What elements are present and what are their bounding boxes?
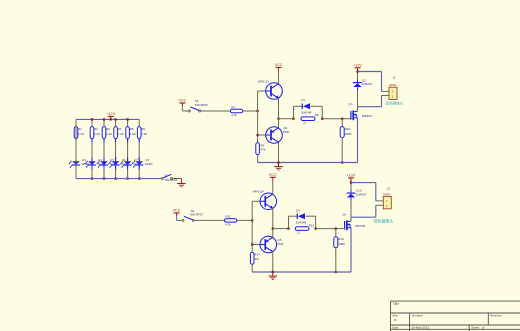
wire R13 to ground rail — [335, 248, 337, 272]
title block frame — [391, 300, 520, 302]
svg-text:1.2K: 1.2K — [130, 132, 136, 136]
resistor R9 47k — [256, 143, 260, 155]
wire gate node to R10 — [341, 119, 343, 127]
wire VCC to Q1 collector — [278, 71, 280, 84]
svg-text:100K: 100K — [338, 242, 345, 246]
wire D2 to +12V node — [357, 72, 359, 80]
junction base node (bottom) — [251, 219, 253, 221]
svg-text:R2: R2 — [94, 127, 98, 131]
svg-text:1N4148: 1N4148 — [296, 221, 307, 225]
junction +12V on bus — [110, 118, 112, 120]
svg-text:+12V: +12V — [353, 63, 362, 67]
svg-text:R5: R5 — [130, 127, 134, 131]
power VCC (S1) — [179, 102, 185, 104]
svg-text:D1: D1 — [301, 98, 305, 102]
junction output node (bottom) — [272, 227, 274, 229]
junction D9 left — [287, 227, 289, 229]
svg-text:SW-SPST: SW-SPST — [190, 212, 203, 216]
wire R5 to D7 — [127, 139, 129, 162]
svg-text:S3: S3 — [164, 174, 168, 178]
wire base bus Q4-Q5 — [251, 201, 253, 252]
transistor Q4 NPN — [252, 200, 260, 202]
svg-text:Q3: Q3 — [348, 102, 352, 106]
LED D3 WLED — [72, 161, 80, 165]
svg-text:1N4007: 1N4007 — [362, 82, 373, 86]
wire D10 to +12V node — [350, 183, 352, 190]
junction bottom bus col 6 — [138, 177, 140, 179]
svg-text:Title: Title — [393, 302, 399, 306]
junction Q6 drain J2 — [350, 217, 352, 221]
svg-text:1.2K: 1.2K — [94, 132, 100, 136]
svg-text:J2: J2 — [387, 186, 390, 190]
junction D1 left — [292, 118, 294, 120]
svg-text:R13: R13 — [338, 237, 344, 241]
svg-text:PNP: PNP — [277, 242, 283, 246]
svg-text:VCC: VCC — [275, 63, 283, 67]
power VCC (Q4) — [270, 176, 276, 178]
LED D4 WLED — [88, 161, 96, 165]
svg-text:22: 22 — [297, 231, 301, 235]
diode D1 1N4148 — [301, 104, 303, 110]
junction D1 right — [321, 118, 323, 120]
switch S2 SW-SPST — [182, 219, 184, 221]
resistor R3 1.2K — [102, 127, 106, 139]
svg-text:VCC: VCC — [173, 209, 181, 213]
power +12V (top) — [357, 68, 359, 72]
wire R6 top — [138, 119, 140, 126]
wire LED bank bottom bus — [75, 119, 77, 178]
wire R4 to D6 — [115, 139, 117, 162]
svg-text:47k: 47k — [254, 257, 259, 261]
wire R14 to ground rail — [251, 264, 253, 272]
svg-text:IRF540: IRF540 — [362, 114, 372, 118]
svg-text:PNP: PNP — [283, 130, 289, 134]
junction gate node (top) — [341, 118, 343, 120]
wire Q3 source to ground rail — [357, 118, 359, 163]
resistor R10 100K — [340, 127, 344, 138]
svg-text:22: 22 — [303, 121, 307, 125]
wire output node to Q2 emitter — [278, 119, 280, 128]
diode D2 1N4007 — [353, 82, 362, 84]
svg-text:R1: R1 — [78, 127, 82, 131]
wire D6 cathode — [115, 165, 117, 179]
wire Q2 collector to ground rail — [278, 142, 280, 162]
wire base bus Q1-Q2 — [257, 91, 259, 143]
wire output node to D9/R12 — [273, 228, 289, 230]
wire R7 to base node — [243, 110, 258, 112]
power VCC (S2) — [174, 212, 180, 214]
resistor R7 4.7k — [230, 109, 242, 112]
LED D5 WLED — [100, 161, 108, 165]
resistor R11 4.7k — [224, 219, 236, 222]
resistor R6 1.2K — [137, 127, 141, 139]
wire S1 to R7 — [201, 110, 231, 112]
svg-text:1N4007: 1N4007 — [356, 193, 367, 197]
junction Q2 base — [256, 134, 258, 136]
svg-text:VCC: VCC — [179, 99, 187, 103]
switch S1 SW-SPST — [188, 110, 190, 112]
wire D9 loop — [288, 216, 290, 228]
power VCC (Q1) — [276, 66, 282, 68]
wire VCC to Q4 collector — [272, 181, 274, 194]
resistor R1 1.2K — [74, 127, 78, 139]
svg-text:蓝色摄像头: 蓝色摄像头 — [386, 100, 404, 105]
diode D10 1N4007 — [347, 192, 356, 194]
svg-text:1.2K: 1.2K — [78, 132, 84, 136]
wire R6 to D8 — [138, 139, 140, 162]
svg-text:Number: Number — [412, 314, 423, 318]
svg-text:WLED: WLED — [145, 162, 153, 166]
wire R2 top — [91, 119, 93, 126]
switch S3 SW-SPST — [161, 178, 163, 180]
svg-text:+12V: +12V — [106, 112, 115, 116]
svg-text:R10: R10 — [345, 127, 351, 131]
wire gate node to R13 — [335, 229, 337, 237]
transistor Q1 NPN — [258, 90, 266, 92]
svg-text:HDR2: HDR2 — [389, 83, 397, 87]
power +12V (bottom) — [350, 178, 352, 183]
ground (bottom driver) — [272, 272, 274, 276]
junction output node (top) — [277, 118, 279, 120]
svg-text:1.2K: 1.2K — [118, 132, 124, 136]
wire D8 cathode — [138, 165, 140, 179]
wire R1 to D3 — [75, 139, 77, 162]
svg-text:J1: J1 — [393, 76, 396, 80]
wire Q4 emitter to output node — [272, 209, 274, 229]
LED D6 WLED — [112, 161, 120, 165]
diode D9 1N4148 — [296, 213, 298, 219]
wire D4 cathode — [91, 165, 93, 179]
junction gate node (bottom) — [335, 227, 337, 229]
wire VCC to S2 — [176, 216, 178, 220]
wire Q1 emitter to output node — [278, 98, 280, 118]
junction top bus col 3 — [103, 118, 105, 120]
svg-text:R7: R7 — [231, 105, 235, 109]
wire gate node to Q3 — [342, 118, 351, 120]
wire R2 to D4 — [91, 139, 93, 162]
svg-text:1N4148: 1N4148 — [301, 111, 312, 115]
svg-text:Revision: Revision — [490, 314, 502, 318]
svg-text:4.7k: 4.7k — [231, 113, 237, 117]
wire output node to D1/R8 — [279, 118, 294, 120]
wire ground rail (top) — [258, 162, 358, 164]
junction ground (bottom) — [272, 271, 274, 273]
svg-text:R3: R3 — [106, 127, 110, 131]
resistor R8 22 — [301, 117, 315, 121]
junction Q5 base — [251, 243, 253, 245]
svg-text:D8: D8 — [146, 158, 150, 162]
wire R9 to ground rail — [257, 155, 259, 163]
svg-text:1.2K: 1.2K — [141, 132, 147, 136]
resistor R5 1.2K — [126, 127, 130, 139]
wire R8 to gate node — [322, 118, 342, 120]
svg-text:Size: Size — [392, 314, 398, 318]
resistor R12 22 — [295, 227, 309, 231]
wire Q3 drain to D2 — [357, 90, 359, 111]
svg-text:B: B — [394, 318, 396, 322]
svg-text:IRF540: IRF540 — [355, 224, 365, 228]
wire +12V to J2 pin1 — [351, 182, 376, 184]
wire Q3 drain to J1 pin2 — [358, 106, 382, 108]
junction bottom bus col 4 — [114, 177, 116, 179]
svg-text:1.2K: 1.2K — [106, 132, 112, 136]
junction ground (top) — [277, 161, 279, 163]
svg-text:NPN Q1: NPN Q1 — [258, 79, 270, 83]
mosfet Q3 IRF540 — [350, 111, 352, 120]
svg-text:Q6: Q6 — [342, 213, 346, 217]
wire ground rail (bottom) — [252, 271, 351, 273]
wire S2 to R11 — [194, 219, 224, 221]
wire Q5 collector to ground rail — [272, 252, 274, 272]
svg-text:100K: 100K — [345, 132, 352, 136]
wire R11 to base node — [237, 219, 252, 221]
wire output node to Q5 emitter — [272, 229, 274, 238]
mosfet Q6 IRF540 — [344, 221, 346, 230]
wire R3 to D5 — [103, 139, 105, 162]
LED D8 WLED — [135, 161, 143, 165]
svg-text:+12V: +12V — [347, 174, 356, 178]
svg-text:NPN Q4: NPN Q4 — [253, 190, 265, 194]
wire D1 loop — [293, 106, 295, 118]
wire Q6 source to ground rail — [350, 228, 352, 272]
svg-text:R11: R11 — [225, 215, 231, 219]
wire R12 to gate node — [316, 228, 336, 230]
wire gate node to Q6 — [336, 228, 345, 230]
LED D7 WLED — [124, 161, 132, 165]
junction R10 ground — [341, 161, 343, 163]
wire R1 top — [75, 119, 77, 126]
svg-text:绿色摄像头: 绿色摄像头 — [373, 217, 393, 223]
wire R10 to ground rail — [341, 138, 343, 163]
connector J2 HDR2 — [383, 197, 391, 209]
junction R13 ground — [335, 271, 337, 273]
wire Q6 drain to D10 — [350, 201, 352, 221]
ground (top driver) — [278, 163, 280, 167]
junction +12V node (bottom) — [350, 181, 352, 183]
junction top bus col 5 — [126, 118, 128, 120]
ground (LED bank) — [180, 179, 182, 184]
junction bottom bus col 2 — [91, 177, 93, 179]
transistor Q2 PNP — [258, 134, 266, 136]
svg-text:D3: D3 — [82, 158, 86, 162]
svg-text:R12: R12 — [309, 223, 315, 227]
resistor R14 47k — [250, 252, 254, 264]
junction base node (top) — [256, 110, 258, 112]
wire D7 cathode — [127, 165, 129, 179]
power +12V (LED bank) — [110, 116, 112, 119]
wire R5 top — [127, 119, 129, 126]
junction bottom bus col 3 — [103, 177, 105, 179]
svg-text:4.7k: 4.7k — [225, 222, 231, 226]
wire R4 top — [115, 119, 117, 126]
svg-text:HDR2: HDR2 — [383, 193, 391, 197]
wire Q6 drain to J2 pin2 — [351, 216, 376, 218]
junction +12V node (top) — [356, 70, 358, 72]
svg-text:R4: R4 — [118, 127, 122, 131]
connector J1 HDR2 — [389, 87, 397, 99]
wire VCC to S1 — [181, 106, 183, 111]
junction top bus col 4 — [114, 118, 116, 120]
junction bottom bus col 5 — [126, 177, 128, 179]
wire +12V top bus — [76, 118, 139, 120]
wire D5 cathode — [103, 165, 105, 179]
resistor R4 1.2K — [114, 127, 118, 139]
resistor R13 100K — [334, 237, 338, 248]
svg-text:D9: D9 — [296, 208, 300, 212]
wire S3 to ground — [172, 178, 181, 180]
junction D9 right — [314, 227, 316, 229]
resistor R2 1.2K — [90, 127, 94, 139]
svg-text:SW-SPST: SW-SPST — [195, 103, 208, 107]
transistor Q5 PNP — [252, 244, 260, 246]
wire D3 cathode — [75, 165, 77, 179]
svg-text:R6: R6 — [141, 127, 145, 131]
svg-text:47k: 47k — [261, 148, 266, 152]
wire R3 top — [103, 119, 105, 126]
svg-text:VCC: VCC — [269, 173, 277, 177]
wire +12V to J1 pin1 — [358, 71, 382, 73]
junction top bus col 2 — [91, 118, 93, 120]
svg-text:R8: R8 — [315, 113, 319, 117]
